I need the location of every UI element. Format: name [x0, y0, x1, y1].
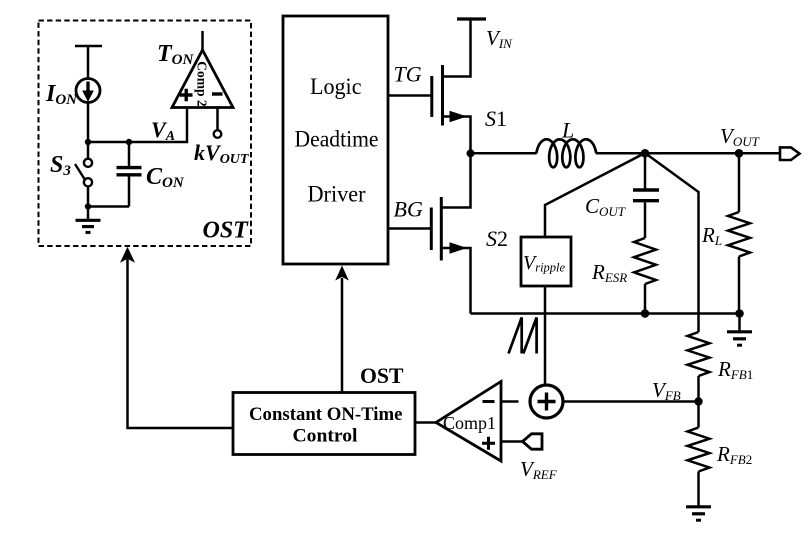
svg-text:BG: BG	[394, 197, 423, 222]
svg-text:Driver: Driver	[308, 182, 366, 207]
svg-text:Logic: Logic	[310, 74, 362, 99]
svg-text:S1: S1	[485, 106, 507, 131]
svg-text:OST: OST	[360, 363, 404, 388]
svg-text:Deadtime: Deadtime	[295, 127, 379, 152]
svg-text:Comp 2: Comp 2	[195, 61, 210, 107]
svg-text:S2: S2	[486, 226, 508, 251]
svg-text:OST: OST	[203, 218, 250, 244]
svg-text:L: L	[561, 118, 574, 143]
svg-text:Control: Control	[293, 426, 358, 447]
svg-text:Comp1: Comp1	[443, 413, 496, 433]
svg-text:Constant ON-Time: Constant ON-Time	[249, 404, 403, 425]
svg-text:TG: TG	[394, 62, 422, 87]
